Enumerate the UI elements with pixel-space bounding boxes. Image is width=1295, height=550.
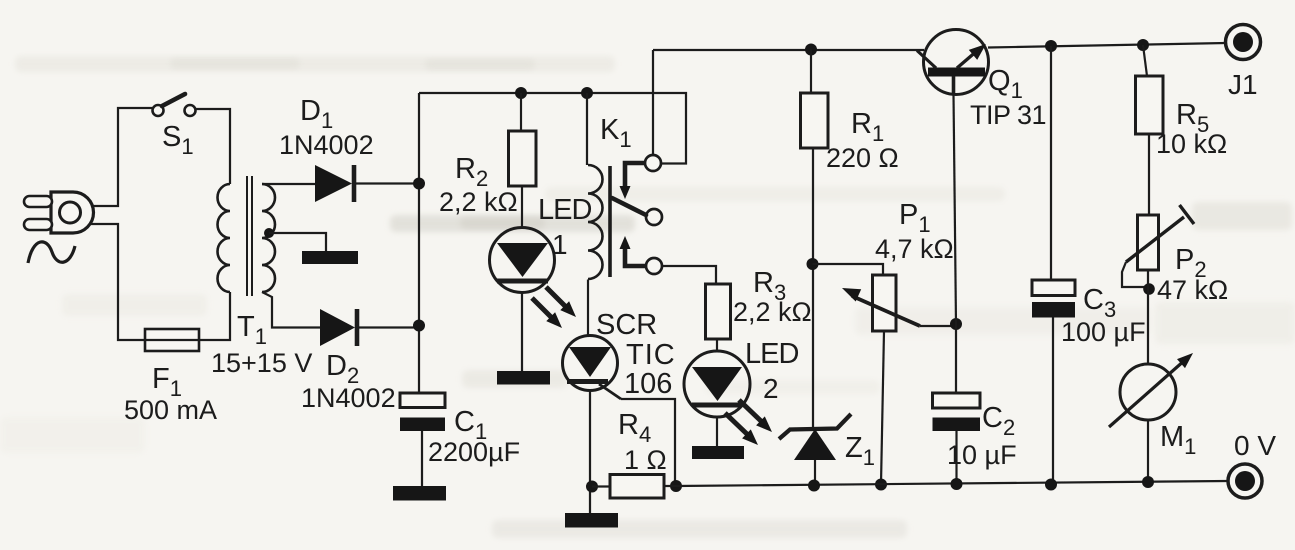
wire C2 to bottom rail: [955, 431, 957, 485]
relay K1 coil: [587, 93, 603, 279]
label R4 value: [624, 445, 667, 475]
node R1 bottom junction: [807, 258, 819, 270]
resistor R2: [509, 93, 537, 228]
wire SCR gate to R4 right: [621, 399, 675, 485]
jack 0V: [1228, 464, 1262, 498]
switch S1: [153, 94, 196, 116]
label SCR: [596, 309, 657, 341]
wire D2 cathode to node B: [359, 326, 419, 328]
label K1: [600, 114, 632, 152]
wire top rail to K1 contact 1: [652, 50, 654, 156]
wire top rail to C3: [1050, 46, 1052, 280]
label F1: [152, 363, 182, 401]
resistor R4: [592, 475, 676, 499]
label P1 value: [875, 234, 954, 264]
svg-text:SCR: SCR: [596, 309, 657, 341]
svg-text:J1: J1: [1228, 69, 1258, 100]
potentiometer P1: [873, 275, 897, 484]
transformer T1 secondary winding: [262, 184, 275, 292]
node P2 bottom: [1143, 283, 1155, 295]
capacitor C3: [1032, 280, 1075, 318]
LED1 light arrows: [532, 287, 576, 328]
svg-text:2: 2: [763, 373, 779, 404]
label R1 value: [826, 143, 899, 173]
LED2 light arrows: [725, 400, 772, 445]
svg-text:220 Ω: 220 Ω: [826, 143, 899, 173]
node P1 bottom: [875, 479, 887, 491]
ground (SCR): [565, 513, 618, 528]
label SCR type2: [624, 368, 672, 400]
LED LED2: [684, 351, 750, 446]
label D1 value: [279, 130, 374, 160]
svg-text:2,2 kΩ: 2,2 kΩ: [733, 297, 812, 327]
wire T1 secondary top to D1 anode: [262, 183, 315, 185]
wire T1 secondary bottom to D2 anode: [262, 292, 320, 328]
label R5 value: [1156, 129, 1227, 159]
relay K1 armature top: [620, 163, 647, 199]
capacitor C1: [400, 393, 445, 431]
potentiometer P1 wiper: [842, 288, 951, 326]
label F1 value: [124, 395, 217, 425]
wire C3 to bottom rail: [1052, 318, 1054, 486]
wire Q1 base down: [954, 94, 957, 324]
svg-text:1N4002: 1N4002: [301, 383, 396, 413]
relay K1 armature blade: [612, 198, 646, 215]
node R4 right: [670, 480, 682, 492]
wire P1 wiper node to C2: [955, 324, 957, 393]
wire R1 node to P1: [813, 264, 884, 275]
relay K1 contact 1 (top): [645, 155, 661, 171]
resistor R1: [801, 50, 829, 265]
svg-text:1N4002: 1N4002: [279, 130, 374, 160]
label LED1 number: [552, 229, 568, 260]
wire K1 contact 3 to R3: [661, 266, 716, 284]
node R1 top: [805, 44, 817, 56]
node B (D2 junction): [413, 320, 425, 332]
resistor R5: [1136, 45, 1164, 215]
resistor R3: [706, 284, 731, 352]
label R2: [455, 153, 488, 191]
label LED2 number: [763, 373, 779, 404]
svg-text:0 V: 0 V: [1234, 430, 1276, 461]
fuse F1: [145, 329, 199, 351]
label D1: [300, 95, 333, 133]
wire K1 coil to SCR anode: [587, 280, 589, 337]
node K1 coil top: [581, 87, 593, 99]
label 0V: [1234, 430, 1276, 461]
svg-text:47 kΩ: 47 kΩ: [1157, 275, 1228, 305]
transformer T1 primary winding: [218, 184, 231, 292]
ground (LED1): [497, 371, 550, 385]
wire rectifier rail to relay contact: [419, 93, 686, 164]
ground (C1): [393, 486, 446, 501]
svg-text:TIP 31: TIP 31: [970, 100, 1046, 130]
wire R1 node to Z1: [812, 264, 814, 427]
label C2 value: [947, 440, 1017, 470]
capacitor C2: [933, 393, 981, 431]
potentiometer P2 wiper: [1122, 205, 1194, 287]
relay K1 core: [608, 166, 612, 277]
wire rectifier output rail: [418, 93, 420, 394]
thyristor SCR1 TIC106: [563, 336, 622, 400]
label R2 value: [439, 187, 518, 217]
svg-text:2,2 kΩ: 2,2 kΩ: [439, 187, 518, 217]
svg-text:500 mA: 500 mA: [124, 395, 217, 425]
node A (D1 junction): [413, 178, 425, 190]
node P1 wiper junction: [950, 318, 962, 330]
label C3 value: [1061, 317, 1146, 347]
LED LED1: [490, 228, 555, 372]
label LED1: [538, 194, 591, 226]
svg-text:100 µF: 100 µF: [1061, 317, 1146, 347]
wire top rail right: [988, 43, 1226, 48]
AC plug P1 (mains plug): [24, 192, 94, 233]
jack J1: [1226, 25, 1261, 60]
label P2: [1175, 244, 1207, 282]
label R3 value: [733, 297, 812, 327]
svg-text:LED: LED: [745, 338, 798, 370]
label P1: [899, 199, 931, 237]
potentiometer P2: [1138, 215, 1159, 270]
label C1 value: [428, 437, 520, 467]
node R4 left: [586, 481, 598, 493]
svg-text:1 Ω: 1 Ω: [624, 445, 667, 475]
meter M1: [1109, 353, 1193, 427]
wire bottom rail: [676, 481, 1228, 486]
label T1 value: [211, 348, 312, 378]
node C3 bottom: [1045, 479, 1057, 491]
label S1: [162, 121, 194, 159]
svg-text:TIC: TIC: [626, 339, 676, 371]
label T1: [237, 311, 267, 349]
svg-text:LED: LED: [538, 194, 591, 226]
label D2: [326, 350, 359, 388]
node T1 center tap: [264, 228, 274, 238]
wire M1 to bottom rail: [1147, 420, 1149, 482]
node R2 top: [515, 87, 527, 99]
label C3: [1083, 284, 1116, 322]
transistor Q1 TIP31: [917, 30, 989, 95]
wire SCR cathode down: [589, 391, 591, 514]
label C1: [454, 406, 487, 444]
relay K1 contact 2 (middle): [646, 209, 662, 225]
diode D2: [320, 309, 357, 346]
label J1: [1228, 69, 1258, 100]
label D2 value: [301, 383, 396, 413]
label R4: [618, 409, 651, 447]
label Q1: [988, 65, 1023, 103]
AC symbol (~): [28, 242, 75, 263]
label M1: [1160, 421, 1196, 459]
label P2 value: [1157, 275, 1228, 305]
svg-text:106: 106: [624, 368, 672, 400]
label SCR type1: [626, 339, 676, 371]
node C2 bottom: [951, 478, 963, 490]
svg-text:2200µF: 2200µF: [428, 437, 520, 467]
node R5 top: [1137, 39, 1149, 51]
label C2: [982, 402, 1015, 440]
wire F1 to T1 primary: [199, 292, 230, 340]
wire top rail left: [653, 49, 924, 51]
ground (center tap): [302, 251, 358, 264]
wire C1 to ground: [421, 431, 423, 486]
wire P2 to M1: [1147, 270, 1149, 364]
relay K1 armature bottom: [620, 236, 648, 266]
label R3: [753, 267, 786, 305]
node C3 top: [1045, 40, 1057, 52]
label R5: [1176, 99, 1209, 137]
wire plug-bottom to fuse: [91, 224, 145, 340]
wire S1 to T1 primary: [196, 109, 231, 184]
ground (LED2): [692, 446, 744, 459]
svg-text:10 kΩ: 10 kΩ: [1156, 129, 1227, 159]
wire T1 center tap to ground: [269, 233, 326, 251]
svg-text:1: 1: [552, 229, 568, 260]
svg-text:15+15 V: 15+15 V: [211, 348, 312, 378]
label Z1: [845, 432, 875, 470]
node M1 bottom: [1142, 476, 1154, 488]
node Z1 bottom: [808, 480, 820, 492]
relay K1 contact 3 (bottom): [646, 258, 662, 274]
label Q1 type: [970, 100, 1046, 130]
label LED2: [745, 338, 798, 370]
svg-text:10 µF: 10 µF: [947, 440, 1017, 470]
svg-text:4,7 kΩ: 4,7 kΩ: [875, 234, 954, 264]
diode D1: [315, 165, 354, 202]
transformer T1 core: [247, 176, 252, 296]
label R1: [851, 108, 884, 146]
zener diode Z1: [779, 414, 851, 486]
wire D1 cathode to node A: [356, 182, 419, 184]
wire plug-top to S1: [91, 108, 153, 206]
